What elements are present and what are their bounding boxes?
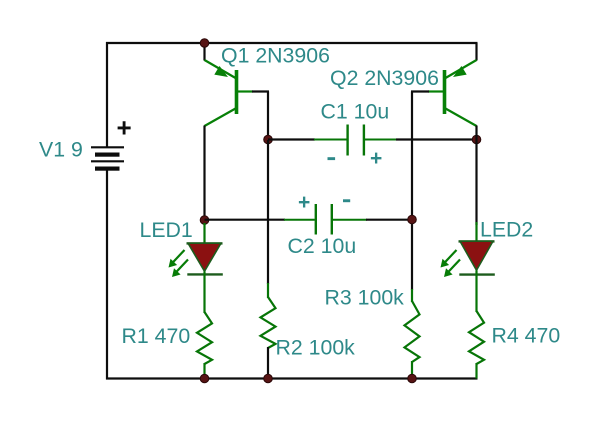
LED LED1	[187, 223, 223, 313]
wire Q1 base horizontal	[252, 90, 269, 92]
label C1 10u	[321, 100, 390, 124]
label C2 10u	[288, 234, 357, 258]
node bottom rail R3 junction	[408, 374, 417, 383]
label R1 470	[122, 324, 191, 348]
transistor Q1	[205, 60, 254, 126]
wire top rail	[106, 42, 478, 44]
wire left rail lower	[106, 171, 108, 380]
wire C1 left	[268, 138, 347, 140]
label LED2	[480, 218, 533, 242]
LED LED2	[459, 222, 495, 312]
svg-text:LED1: LED1	[140, 218, 193, 242]
svg-text:R4 470: R4 470	[492, 323, 561, 347]
label Q1 2N3906	[221, 44, 330, 68]
node bottom rail R1 junction	[200, 374, 209, 383]
node bottom rail R2 junction	[264, 374, 273, 383]
resistor R2	[261, 297, 276, 348]
capacitor C1	[348, 125, 364, 156]
svg-text:Q2 2N3906: Q2 2N3906	[330, 66, 439, 90]
LED1 light arrow 1	[169, 250, 185, 268]
wire Q2 base vertical	[411, 92, 413, 291]
resistor R1	[197, 312, 212, 379]
svg-text:+: +	[370, 147, 382, 170]
svg-text:+: +	[117, 113, 132, 143]
wire R2 upper	[267, 140, 269, 298]
resistor R3	[405, 301, 420, 379]
wire bottom rail	[106, 377, 478, 379]
battery plus sign	[117, 113, 132, 143]
node C1 right / Q2 collector junction	[472, 135, 481, 144]
wire Q1 collector vertical	[203, 126, 205, 226]
LED1 light arrow 2	[172, 260, 188, 278]
label R2 100k	[276, 336, 356, 360]
node top rail / Q1 emitter junction	[200, 39, 209, 48]
node Q1 collector / C2 left junction	[200, 216, 209, 225]
label C1 minus	[328, 157, 336, 160]
wire Q1 emitter drop	[203, 43, 205, 61]
node C2 right / Q2 base junction	[408, 215, 417, 224]
wire Q2 emitter drop	[475, 43, 477, 61]
svg-text:V1 9: V1 9	[39, 138, 83, 162]
resistor R4	[469, 311, 484, 379]
wire left rail upper	[106, 42, 108, 148]
svg-text:R1 470: R1 470	[122, 324, 191, 348]
wire Q1 base vertical	[267, 92, 269, 141]
battery V1	[91, 147, 124, 170]
svg-text:C2 10u: C2 10u	[288, 234, 357, 258]
svg-text:Q1 2N3906: Q1 2N3906	[221, 44, 330, 68]
wire C2 left	[205, 219, 315, 221]
label Q2 2N3906	[330, 66, 439, 90]
label LED1	[140, 218, 193, 242]
svg-text:R3 100k: R3 100k	[325, 286, 405, 310]
transistor Q2	[428, 60, 477, 126]
label C2 minus	[343, 199, 350, 202]
wire R2 lower	[267, 347, 269, 379]
svg-text:+: +	[298, 191, 310, 214]
wire C2 right	[333, 219, 412, 221]
wire C1 right	[365, 139, 477, 141]
svg-text:R2 100k: R2 100k	[276, 336, 356, 360]
LED2 light arrow 1	[441, 250, 457, 268]
label C1 plus	[370, 147, 382, 170]
wire R3 upper lead	[411, 289, 413, 302]
node Q1 base / C1 left junction	[264, 135, 273, 144]
wire Q2 collector vertical	[475, 126, 477, 226]
capacitor C2	[316, 204, 332, 235]
label R4 470	[492, 323, 561, 347]
label C2 plus	[298, 191, 310, 214]
label R3 100k	[325, 286, 405, 310]
label V1 9	[39, 138, 83, 162]
svg-text:C1 10u: C1 10u	[321, 100, 390, 124]
wire Q2 base horizontal	[411, 90, 429, 92]
svg-text:LED2: LED2	[480, 218, 533, 242]
LED2 light arrow 2	[444, 260, 460, 278]
